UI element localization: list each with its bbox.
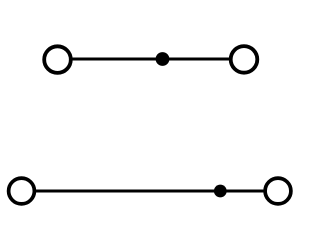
wire (level 1 bus) bbox=[58, 58, 245, 61]
wire (level 2 bus) bbox=[22, 190, 279, 193]
terminal T1.2 (level 1 right clamp) bbox=[231, 46, 258, 73]
terminal T2.2 (level 2 right clamp) bbox=[265, 178, 291, 204]
junction node (level 1 tap) bbox=[156, 52, 170, 66]
terminal T1.1 (level 1 left clamp) bbox=[44, 46, 71, 73]
junction node (level 2 tap) bbox=[214, 185, 227, 198]
terminal T2.1 (level 2 left clamp) bbox=[9, 178, 35, 204]
